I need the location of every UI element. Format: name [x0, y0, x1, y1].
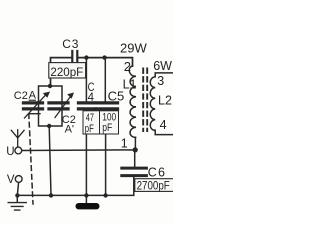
svg-text:4: 4: [160, 118, 167, 132]
svg-text:1: 1: [121, 137, 128, 151]
wire: L1 bottom to U wire: [134, 137, 136, 150]
node: ground/C5 rail junction: [103, 193, 107, 197]
node: ground/V junction: [15, 193, 19, 197]
node: L1 pin1 / U / C6 junction: [133, 147, 138, 152]
svg-text:A': A': [65, 123, 74, 135]
svg-text:C6: C6: [148, 165, 166, 179]
wire: V down to ground node: [17, 182, 18, 202]
wire: C4 rail top: [85, 58, 87, 102]
variable capacitor C2A arrow: [25, 95, 47, 119]
capacitor C4 plates: [79, 103, 96, 109]
svg-text:6W: 6W: [153, 59, 172, 73]
node: ground/C2 rail junction: [49, 193, 53, 197]
wire: C6 top stub: [134, 150, 136, 167]
chassis ground bar: [76, 203, 100, 209]
node: loop top junction: [48, 84, 52, 88]
svg-text:3: 3: [157, 74, 164, 88]
transformer core dashed lines: [143, 69, 147, 132]
capacitor C5 plates: [97, 103, 118, 109]
svg-text:2700pF: 2700pF: [137, 181, 170, 193]
node: loop bottom junction: [47, 124, 51, 128]
label box 100pF: [100, 111, 119, 134]
wire: L2 pin 3 output to right edge: [155, 73, 173, 77]
svg-text:V: V: [7, 174, 15, 186]
svg-text:U: U: [6, 146, 14, 158]
wire: C4 rail bottom to ground: [85, 110, 87, 202]
wire: U horizontal wire to L1 pin 1: [22, 149, 135, 152]
screen shield dashed line: [29, 114, 33, 204]
svg-text:L2: L2: [158, 93, 172, 107]
wire: ground wire from V node to C6 bottom: [17, 177, 134, 195]
ground symbol under V: [8, 203, 26, 211]
wire: top rail from C3 right to L1 pin 2: [78, 58, 132, 66]
svg-text:pF: pF: [85, 123, 94, 135]
C2 loop rectangle: [39, 86, 63, 126]
svg-text:2: 2: [124, 59, 131, 74]
label box 47pF: [83, 111, 100, 134]
variable capacitor C2A plates: [24, 103, 43, 109]
svg-text:pF: pF: [102, 122, 112, 134]
label box 2700pF: [135, 179, 175, 192]
wire: rail from C2 loop bottom to ground wire: [49, 126, 51, 195]
wire: shield stub: [29, 113, 40, 115]
label box 220pF: [49, 63, 86, 78]
capacitor C6 plates: [122, 168, 147, 176]
wire: C5 rail bottom to ground: [105, 110, 107, 195]
svg-text:220pF: 220pF: [50, 66, 83, 79]
svg-text:L1: L1: [123, 78, 137, 92]
terminal V circle: [15, 176, 22, 183]
svg-text:C2: C2: [14, 90, 28, 102]
antenna symbol: [11, 130, 24, 147]
wire: L2 pin 4 output to right edge: [155, 130, 173, 134]
svg-text:4: 4: [88, 92, 95, 104]
node: ground/C4 rail junction: [84, 193, 88, 197]
variable capacitor C2A' arrow: [55, 97, 71, 118]
variable capacitor C2A' plates: [49, 103, 68, 109]
inductor L1 winding: [129, 66, 136, 137]
svg-text:C5: C5: [108, 88, 125, 103]
svg-text:29W: 29W: [120, 41, 147, 56]
capacitor C3: [72, 51, 77, 64]
node: junction top rail / C4: [84, 55, 88, 59]
wire: C5 rail top: [104, 58, 106, 102]
svg-text:A: A: [29, 90, 37, 102]
terminal U circle: [15, 147, 22, 154]
svg-text:C3: C3: [62, 37, 79, 51]
node: junction top rail / C5: [102, 55, 106, 59]
wire: node Y stub from C3 left down to C2 loop top: [51, 58, 72, 86]
inductor L2 winding: [150, 77, 155, 131]
